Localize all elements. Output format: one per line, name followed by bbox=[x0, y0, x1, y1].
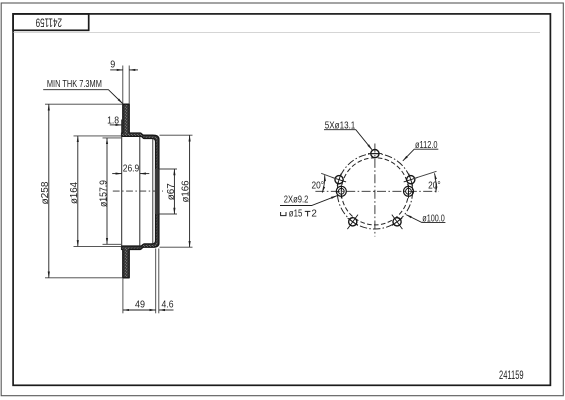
inner silhouette line x=139.7 bbox=[139, 137, 141, 246]
svg-text:9: 9 bbox=[110, 60, 115, 71]
5 bolt holes ø13.1 with radial ticks bbox=[330, 150, 420, 233]
disc section (hatched) bbox=[122, 104, 159, 278]
inner silhouette line x=121.6 bbox=[121, 120, 123, 250]
centerline left view bbox=[113, 190, 163, 192]
dim 9 (top) bbox=[122, 66, 124, 104]
svg-text:ø166: ø166 bbox=[180, 180, 191, 202]
svg-text:MIN THK 7.3MM: MIN THK 7.3MM bbox=[47, 79, 102, 90]
dim ø67 bbox=[159, 168, 177, 170]
svg-text:20°: 20° bbox=[312, 180, 325, 191]
svg-text:20°: 20° bbox=[428, 180, 441, 191]
radial extension lines for 20° dims bbox=[321, 173, 336, 179]
depth symbol + 2 bbox=[305, 211, 311, 216]
centerlines bbox=[315, 190, 439, 192]
dim ø164 bbox=[74, 135, 122, 137]
counterbore symbol bbox=[281, 212, 286, 216]
circle ø100 (dashed) bbox=[341, 158, 408, 225]
dim ø157.9 bbox=[103, 137, 122, 139]
upper-left hole (162°) bbox=[330, 171, 348, 188]
20° arc dims bbox=[322, 175, 324, 192]
title box top-left bbox=[13, 14, 89, 30]
dim ø258 bbox=[45, 103, 122, 105]
svg-text:4.6: 4.6 bbox=[162, 299, 174, 310]
svg-text:241159: 241159 bbox=[499, 368, 524, 382]
top hole (90°) bbox=[371, 150, 379, 158]
hub bore region (dark) bbox=[155, 169, 159, 214]
inner silhouette line x=152.8 bbox=[152, 139, 154, 244]
svg-text:49: 49 bbox=[135, 299, 145, 310]
svg-text:ø258: ø258 bbox=[40, 181, 51, 204]
svg-text:ø67: ø67 bbox=[166, 183, 177, 200]
svg-text:26.9: 26.9 bbox=[123, 164, 140, 175]
upper-right hole (18°) bbox=[402, 171, 420, 188]
lower-right hole (306°) bbox=[387, 211, 408, 233]
svg-text:2Xø9.2: 2Xø9.2 bbox=[284, 195, 309, 206]
dim ø166 bbox=[160, 134, 193, 136]
bolt circle ø112 (dash-dot) bbox=[337, 154, 412, 229]
2 locating holes ø9.2 with ø15 counterbore bbox=[336, 185, 413, 199]
svg-text:2: 2 bbox=[311, 208, 317, 219]
lower-left hole (234°) bbox=[342, 211, 363, 233]
svg-text:ø157.9: ø157.9 bbox=[98, 180, 109, 207]
dims 49 / 4.6 (bottom) bbox=[122, 279, 124, 314]
svg-text:ø164: ø164 bbox=[69, 182, 80, 204]
svg-text:ø15: ø15 bbox=[289, 208, 303, 219]
svg-text:241159: 241159 bbox=[35, 16, 62, 30]
faint scan line bbox=[14, 31, 541, 33]
